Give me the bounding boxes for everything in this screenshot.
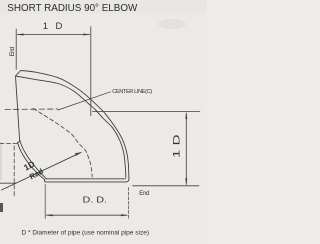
svg-text:D. D.: D. D. [83,196,108,205]
faint smudge top-right [158,19,186,29]
elbow inner arc (upper line) [20,140,47,179]
radius arrow head [75,152,82,156]
top dim arrow right [83,34,90,36]
elbow top end cap [16,71,21,77]
faint smudge mid-left [0,142,2,180]
top dimension line 1D [18,34,90,36]
left end axis dash line [5,108,58,110]
pipe centerline dashed arc [33,109,92,178]
bottom band left cap [43,180,46,182]
elbow outer arc (wall inner line) [16,76,126,178]
vertical dim arrow down [185,178,187,185]
dark blob left edge [0,203,3,212]
end line bottom right [133,185,200,187]
left face bottom hook [18,140,20,143]
svg-text:End: End [139,191,149,197]
svg-text:1 D: 1 D [172,134,182,158]
svg-text:SHORT RADIUS 90° ELBOW: SHORT RADIUS 90° ELBOW [7,3,138,14]
elbow right end corner [126,177,129,182]
vertical dim arrow up [185,112,187,119]
svg-text:End: End [9,46,16,56]
bottom end face band bottom line [45,181,126,183]
DD arrow right [121,214,128,216]
DD dim right extension [127,188,129,219]
bottom end face band top line [46,178,125,180]
short horizontal line at bend center [0,182,16,184]
svg-text:D * Diameter of pipe (use nomi: D * Diameter of pipe (use nominal pipe s… [22,231,150,237]
elbow inner arc (lower line) [18,142,45,179]
center line leader [58,92,111,110]
tangent dash line left [0,143,20,145]
elbow left edge (top end face) [16,76,20,140]
radius arrow [2,153,81,190]
vertical dash line at bend center [13,146,15,198]
svg-text:CENTER LINE(C): CENTER LINE(C) [112,89,152,95]
horizontal center line right [93,111,200,113]
top dimension left extension line [15,29,17,70]
elbow outer arc (outermost line) [21,71,129,178]
svg-text:D: D [56,21,63,32]
top dim arrow left [16,34,23,36]
vertical 1D dimension line [185,113,187,185]
svg-text:1: 1 [43,21,48,32]
DD arrow left [45,214,52,216]
DD dimension line [47,214,128,216]
top dimension right extension / center line vertical [90,27,92,116]
DD dim left extension [44,185,46,219]
